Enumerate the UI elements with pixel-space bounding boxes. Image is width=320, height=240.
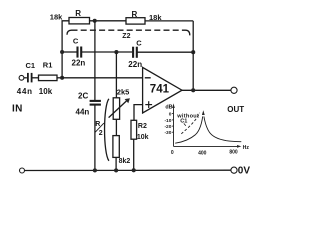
svg-text:22n: 22n — [72, 59, 86, 68]
svg-text:C: C — [73, 37, 79, 46]
wire C-C feedback line — [62, 51, 193, 53]
svg-text:Hz: Hz — [243, 145, 250, 151]
svg-text:0V: 0V — [238, 166, 251, 177]
svg-text:-20: -20 — [164, 124, 171, 130]
svg-text:800: 800 — [229, 150, 238, 156]
resistor R1 10k — [39, 61, 63, 97]
wire node A up to top rail — [62, 21, 69, 78]
svg-text:44n: 44n — [76, 108, 90, 117]
wire op-amp output to OUT — [182, 89, 231, 91]
input terminal IN — [12, 75, 27, 114]
svg-text:dB: dB — [165, 104, 172, 110]
wire C-C midpoint down to potentiometer — [115, 52, 117, 98]
graph y-axis dB — [165, 103, 174, 146]
svg-text:OUT: OUT — [227, 105, 244, 114]
svg-text:0: 0 — [171, 150, 174, 156]
svg-text:C: C — [136, 38, 142, 47]
op-amp U1 741 — [143, 67, 182, 113]
junction C-C to output rail — [191, 50, 195, 54]
svg-text:2C: 2C — [78, 91, 88, 100]
OUT terminal — [227, 87, 244, 114]
wire R2 down to 0V rail — [133, 139, 135, 170]
potentiometer R/2 2k5 — [109, 87, 130, 119]
output junction — [191, 88, 195, 92]
svg-text:-30: -30 — [164, 130, 171, 136]
graph response curve solid — [175, 110, 241, 143]
svg-text:18k: 18k — [50, 12, 63, 21]
junction 2C at 0V rail — [93, 168, 97, 172]
svg-text:C1: C1 — [26, 61, 36, 70]
resistor R2 10k — [131, 120, 149, 141]
annotation without C1 — [176, 113, 199, 125]
svg-text:R: R — [75, 9, 81, 18]
svg-text:R2: R2 — [138, 123, 147, 130]
wire R-R midpoint down to 2C — [94, 21, 96, 100]
resistor 8k2 — [113, 136, 130, 165]
svg-text:R: R — [95, 121, 100, 128]
wire 8k2 down to 0V rail — [115, 157, 117, 170]
junction R2 at 0V rail — [132, 168, 136, 172]
capacitor C 22n (left) — [72, 37, 86, 68]
svg-text:741: 741 — [150, 83, 170, 95]
wire pot to 8k2 — [115, 119, 117, 135]
svg-text:44n: 44n — [17, 87, 33, 96]
node A junction — [60, 76, 64, 80]
svg-text:2: 2 — [99, 130, 103, 137]
capacitor 2C 44n — [76, 91, 101, 116]
resistor R 18k (first) — [50, 9, 126, 24]
svg-text:22n: 22n — [128, 60, 142, 69]
brace grouping R/2 — [105, 99, 109, 161]
svg-text:R1: R1 — [43, 61, 53, 70]
graph x-axis tick labels — [171, 150, 238, 157]
graph response curve dashed (without C1) — [181, 113, 199, 134]
junction 8k2 at 0V rail — [114, 168, 118, 172]
svg-text:Z2: Z2 — [122, 33, 130, 40]
capacitor C1 44n — [17, 61, 39, 96]
0V terminal right — [231, 166, 250, 177]
graph y-axis tick labels — [164, 112, 173, 137]
wire non-inverting input to R2 — [134, 105, 143, 121]
svg-text:IN: IN — [12, 104, 23, 115]
0V rail — [25, 169, 231, 171]
svg-text:2k5: 2k5 — [117, 87, 130, 96]
svg-text:10k: 10k — [39, 87, 53, 96]
wire node A to inverting input — [62, 77, 143, 79]
junction C-C midpoint — [114, 50, 118, 54]
svg-text:18k: 18k — [149, 13, 162, 22]
graph x-axis Hz — [174, 145, 250, 151]
svg-text:-10: -10 — [164, 118, 171, 124]
label R/2 — [95, 121, 104, 137]
svg-text:400: 400 — [198, 151, 207, 157]
ground terminal left — [20, 168, 25, 173]
junction node A to C-C — [60, 50, 64, 54]
capacitor C 22n (right) — [128, 38, 142, 69]
dashed bracket Z2 — [67, 30, 190, 40]
svg-text:8k2: 8k2 — [119, 158, 131, 165]
resistor R 18k (second) — [126, 10, 193, 24]
wire 2C down to 0V rail — [94, 106, 96, 171]
svg-text:10k: 10k — [137, 134, 149, 141]
svg-text:0: 0 — [169, 112, 172, 118]
svg-text:R: R — [132, 10, 138, 19]
junction between R and R — [93, 19, 97, 23]
feedback rail down from top — [192, 21, 194, 90]
